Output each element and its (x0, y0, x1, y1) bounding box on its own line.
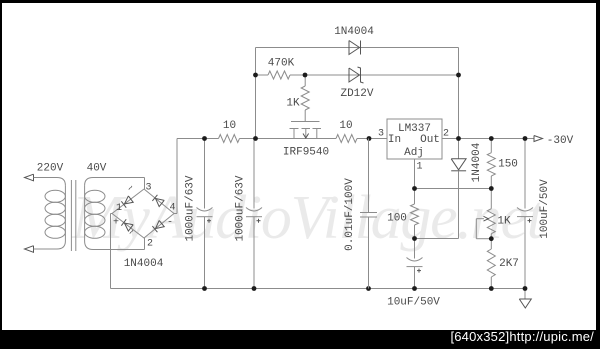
bridge AC tilde bottom (127, 227, 139, 239)
wire bridge pin4 to main rail (174, 139, 177, 214)
svg-text:1K: 1K (497, 216, 511, 228)
bridge pin 1 label (116, 203, 122, 214)
resistor 470K (268, 71, 290, 79)
label -30V (547, 135, 574, 147)
wire gate node to 1K (304, 75, 306, 86)
svg-text:150: 150 (498, 159, 518, 171)
transformer secondary winding (85, 178, 105, 250)
resistor 150 (487, 139, 495, 189)
svg-text:10: 10 (223, 120, 236, 132)
svg-text:In: In (388, 134, 401, 146)
capacitor C1 1000uF/63V (197, 139, 213, 289)
transformer core (71, 180, 75, 251)
wire bridge pin1 to common rail (111, 214, 113, 289)
wire zener row segment b (290, 74, 459, 76)
svg-text:100: 100 (387, 213, 407, 225)
main rail segment b (240, 138, 337, 140)
svg-text:1N4004: 1N4004 (334, 26, 374, 38)
terminal arrow 220V bottom (25, 246, 58, 253)
main rail segment c (to LM337 In) (357, 138, 387, 140)
wire top (through D1) (256, 47, 459, 49)
bridge pin 4 label (169, 203, 175, 214)
label 10 (R2) (339, 120, 352, 132)
label 40V (87, 163, 107, 175)
label 150 (498, 159, 518, 171)
bridge diamond (112, 189, 174, 238)
svg-text:0.01uF/100V: 0.01uF/100V (344, 178, 356, 251)
bottom bar caption (450, 329, 594, 344)
svg-text:1K: 1K (286, 98, 300, 110)
svg-text:2: 2 (147, 239, 153, 250)
bridge diode D edge 4-3 (152, 195, 164, 207)
label LM337 (398, 123, 431, 135)
svg-text:470K: 470K (268, 58, 295, 70)
adj rail (415, 188, 492, 190)
svg-text:-: - (167, 218, 173, 229)
label 1N4004 (D3) (471, 142, 483, 182)
label ZD12V (340, 88, 373, 100)
svg-text:1000uF/63V: 1000uF/63V (235, 175, 247, 241)
bridge minus label (167, 218, 173, 229)
label In (388, 134, 401, 146)
svg-text:1000uF/63V: 1000uF/63V (185, 175, 197, 241)
output arrow -30V (534, 136, 543, 142)
svg-text:1N4004: 1N4004 (124, 258, 164, 270)
pin 1 label (LM337 Adj) (416, 162, 422, 173)
svg-text:10uF/50V: 10uF/50V (387, 297, 440, 309)
label 1N4004 (D1) (334, 26, 374, 38)
wire secondary top to bridge pin3 (93, 178, 145, 190)
mosfet Q1 substrate arrow (303, 134, 309, 139)
capacitor 10uF/50V (407, 239, 423, 289)
resistor 10 (R2) (336, 135, 357, 143)
svg-text:Out: Out (420, 134, 440, 146)
wire secondary bottom to bridge pin2 (93, 238, 145, 250)
bridge diode D edge 2-1 (121, 219, 133, 231)
label 1000uF/63V (C2) (235, 175, 247, 241)
diode D3 1N4004 (out to node B) (451, 139, 466, 239)
svg-text:1N4004: 1N4004 (471, 142, 483, 182)
svg-text:MyAudioVillage.net: MyAudioVillage.net (71, 184, 546, 252)
capacitor 100uF/50V (517, 139, 533, 289)
resistor 10 (R1) (219, 135, 240, 143)
resistor 100 (411, 189, 419, 239)
svg-text:3: 3 (378, 129, 384, 140)
label Adj (404, 147, 424, 159)
wire LM337 Out to -30V rail (442, 138, 534, 140)
svg-text:100uF/50V: 100uF/50V (539, 179, 551, 239)
label 470K (268, 58, 295, 70)
svg-text:220V: 220V (37, 163, 64, 175)
bridge diode D edge 3-1 (121, 196, 133, 208)
svg-text:[640x352]http://upic.me/: [640x352]http://upic.me/ (450, 329, 594, 344)
transformer primary winding (45, 178, 65, 250)
bridge AC tilde top (126, 183, 138, 195)
bridge pin 2 label (147, 239, 153, 250)
label 2K7 (499, 258, 519, 270)
svg-text:2: 2 (443, 129, 449, 140)
bridge pin 3 label (145, 183, 151, 194)
bridge plus label (113, 218, 119, 229)
label Out (420, 134, 440, 146)
label 10 (R1) (223, 120, 236, 132)
label 100 (387, 213, 407, 225)
label 1N4004 bridge (124, 258, 164, 270)
pin 2 label (LM337 Out) (443, 129, 449, 140)
bridge diode D edge 4-2 (152, 220, 164, 232)
capacitor 0.01uF/100V (360, 139, 377, 289)
svg-text:ZD12V: ZD12V (340, 88, 373, 100)
ground symbol (519, 289, 531, 309)
regulator U1 LM337 box (387, 119, 442, 159)
zener ZD12V (349, 67, 364, 83)
resistor 2K7 (487, 239, 495, 289)
common bottom rail (111, 288, 526, 290)
svg-text:1: 1 (116, 203, 122, 214)
label 1K (gate) (286, 98, 300, 110)
label 1K (pot) (497, 216, 511, 228)
label 100uF/50V (539, 179, 551, 239)
mosfet Q1 IRF9540 gate plate (291, 121, 320, 123)
potentiometer 1K (487, 189, 495, 239)
svg-text:4: 4 (169, 203, 175, 214)
watermark MyAudioVillage.net (71, 184, 546, 252)
pin 3 label (LM337 In) (378, 129, 384, 140)
label IRF9540 (283, 147, 329, 159)
wire right riser x=458.5 (458, 48, 460, 139)
diode D1 1N4004 (349, 41, 361, 55)
main rail segment a (177, 138, 219, 140)
wire zener row segment a (256, 74, 269, 76)
terminal arrow 220V top (25, 174, 58, 181)
svg-text:+: + (113, 218, 119, 229)
svg-text:3: 3 (145, 183, 151, 194)
resistor 1K (gate) (301, 86, 309, 110)
wire left riser x=255.5 (255, 48, 257, 139)
svg-text:1: 1 (416, 162, 422, 173)
label 10uF/50V (387, 297, 440, 309)
svg-text:40V: 40V (87, 163, 107, 175)
mosfet Q1 channel and legs (290, 129, 322, 139)
node B rail (415, 238, 459, 240)
svg-text:-30V: -30V (547, 135, 574, 147)
svg-text:IRF9540: IRF9540 (283, 147, 329, 159)
capacitor C2 1000uF/63V (246, 139, 262, 289)
wire 1K to gate (304, 110, 306, 122)
svg-text:2K7: 2K7 (499, 258, 519, 270)
label 1000uF/63V (C1) (185, 175, 197, 241)
potentiometer 1K wiper (476, 216, 491, 238)
wire LM337 Adj pin (414, 159, 416, 189)
svg-text:10: 10 (339, 120, 352, 132)
label 220V (37, 163, 64, 175)
svg-text:Adj: Adj (404, 147, 424, 159)
label 0.01uF/100V (344, 178, 356, 251)
